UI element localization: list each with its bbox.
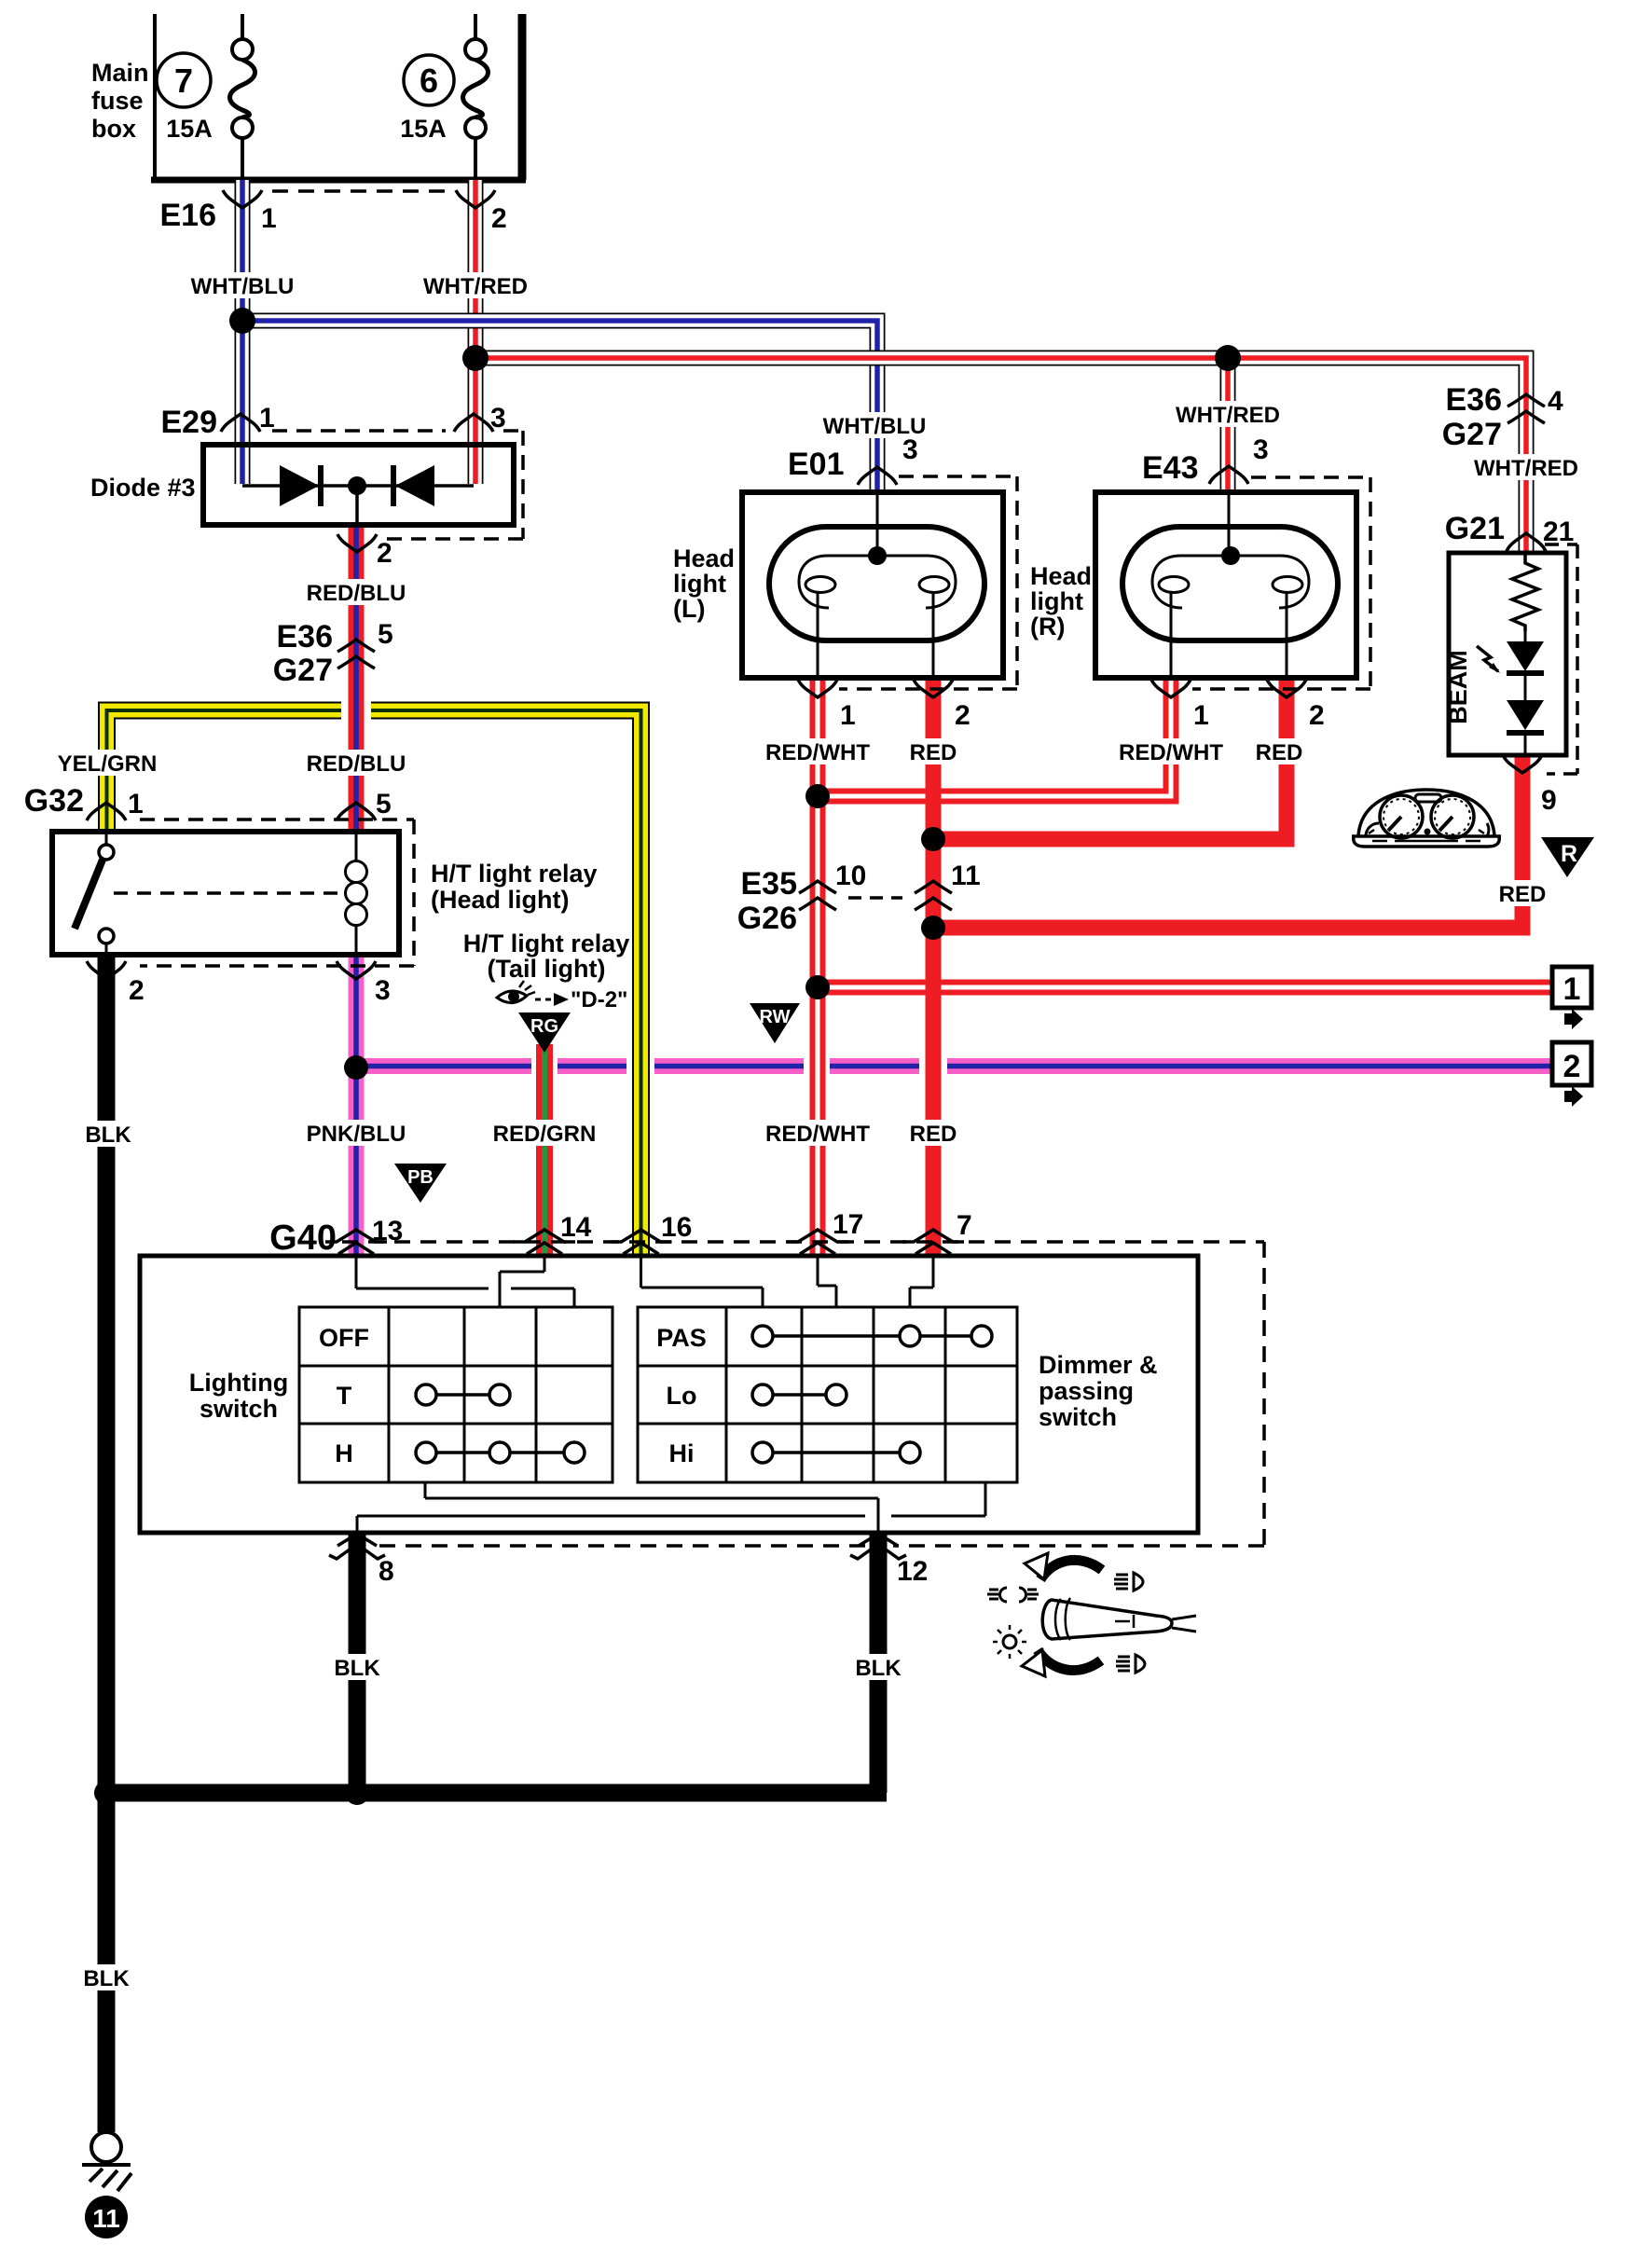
stalk illustration: headlight symbol upper: [1114, 1573, 1143, 1591]
relay G32 pin1 arrow: [87, 803, 126, 820]
svg-text:G27: G27: [1442, 417, 1502, 452]
wire label RED/WHT (E01 pin1): [765, 738, 870, 765]
wire WHT/BLU horizontal bus to headlight L: [235, 321, 877, 492]
svg-text:G21: G21: [1445, 511, 1505, 546]
svg-text:RED: RED: [910, 1122, 957, 1147]
svg-text:10: 10: [835, 861, 866, 891]
wire RED/WHT branch to connector box 1: [810, 980, 1552, 996]
diode D2 (right, pointing left): [395, 465, 434, 506]
wire label BLK (G40 pin12): [852, 1654, 904, 1681]
svg-text:WHT/RED: WHT/RED: [1176, 403, 1280, 428]
LED lightning arrow: [1477, 646, 1498, 671]
diode center tap node: [348, 476, 366, 495]
svg-text:T: T: [337, 1382, 352, 1410]
svg-text:WHT/RED: WHT/RED: [1474, 456, 1578, 481]
svg-text:13: 13: [372, 1216, 403, 1246]
junction dot RED at y995: [921, 916, 945, 940]
svg-text:G32: G32: [24, 783, 84, 819]
svg-text:BLK: BLK: [85, 1122, 131, 1148]
svg-text:BLK: BLK: [855, 1656, 902, 1681]
connector E16 pin2 arrow: [456, 190, 495, 208]
wire RED crossing patches (RED passes over branch lines): [926, 786, 942, 998]
svg-text:box: box: [91, 115, 136, 143]
connector E01 pin1 arrow: [798, 680, 837, 697]
wire label RED (E01 pin2): [907, 738, 959, 765]
stalk illustration: stalk body: [1042, 1600, 1172, 1639]
connector G21 pin21 arrow: [1507, 533, 1546, 551]
wire label RED/BLU (lower): [307, 750, 406, 777]
wire WHT/RED fuse6 to E29 pin3 (vertical): [468, 180, 484, 484]
junction dot WHT/RED bus: [462, 345, 489, 371]
svg-text:11: 11: [92, 2204, 120, 2233]
svg-text:5: 5: [378, 619, 393, 650]
junction dot WHT/BLU bus: [229, 308, 255, 334]
svg-text:RED: RED: [1499, 882, 1547, 907]
relay switch bottom contact: [99, 929, 114, 943]
wire PNK/BLU G32 pin3 to G40 pin13: [349, 955, 365, 1254]
main fuse box: [151, 14, 526, 180]
ground symbol: [91, 2132, 121, 2162]
G40 pin14 chevrons: [514, 1230, 575, 1254]
svg-text:"D-2": "D-2": [571, 987, 627, 1012]
headlight L dashed connector box: [839, 476, 1017, 689]
svg-text:Head: Head: [1030, 562, 1092, 590]
G40 internal wire pin16 to grid: [641, 1256, 764, 1307]
diode #3 internal rail: [242, 484, 474, 488]
wire label RED (E43 pin2): [1253, 738, 1305, 765]
G40 pin7 chevrons: [902, 1230, 964, 1254]
svg-text:RED/WHT: RED/WHT: [765, 1122, 870, 1147]
relay G32 box: [52, 832, 399, 955]
svg-text:switch: switch: [200, 1395, 278, 1423]
svg-text:E16: E16: [160, 198, 217, 233]
G40 internal wire pin7 to grid: [910, 1256, 933, 1307]
svg-text:G27: G27: [273, 653, 333, 688]
svg-text:G40: G40: [269, 1219, 337, 1258]
fuse 7 (15A): [230, 14, 255, 180]
svg-text:RED: RED: [910, 740, 957, 765]
G40 internal wire pin13 to grid: [356, 1256, 574, 1307]
headlight L bulb outline: [769, 527, 984, 640]
lighting switch grid: [299, 1307, 613, 1482]
relay switch top contact: [99, 845, 114, 860]
svg-text:4: 4: [1548, 386, 1563, 417]
G40 internal wire pin14 to grid: [500, 1256, 544, 1307]
junction dot PNK/BLU: [344, 1055, 368, 1080]
relay switch stubs: [105, 832, 108, 955]
svg-text:light: light: [1030, 587, 1083, 615]
switch assembly G40 box: [140, 1256, 1198, 1533]
stalk illustration: prongs: [1172, 1616, 1196, 1632]
wire label WHT/BLU (E16 pin1): [189, 272, 296, 299]
connector E43 pin2 arrow: [1267, 680, 1306, 697]
svg-text:RED/BLU: RED/BLU: [307, 581, 406, 606]
wire label WHT/RED (E43): [1174, 401, 1282, 428]
headlight L feed wire and node: [876, 492, 879, 556]
connector box 2 wire destination: [1552, 1042, 1591, 1085]
svg-text:21: 21: [1543, 516, 1574, 547]
svg-text:(L): (L): [673, 595, 705, 623]
svg-text:17: 17: [833, 1209, 863, 1240]
dimmer contacts row PAS: [752, 1326, 992, 1346]
svg-text:7: 7: [174, 62, 193, 100]
svg-text:1: 1: [1193, 700, 1209, 731]
fuse 7 number circle: [157, 53, 211, 107]
connector E35/G26 dashed link: [848, 896, 902, 900]
svg-text:8: 8: [379, 1556, 394, 1587]
connector E29 dashed link and diode dashed box: [272, 431, 523, 539]
svg-text:2: 2: [491, 203, 507, 234]
ground number circle 11: [85, 2196, 128, 2238]
svg-text:light: light: [673, 570, 726, 598]
headlight R feed wire and node: [1228, 493, 1231, 556]
relay G32 dashed box: [140, 819, 414, 966]
svg-text:2: 2: [1563, 1049, 1581, 1084]
wire YEL/GRN horizontal from G32 pin1 loop: [107, 710, 342, 832]
wire PNK/BLU horizontal to connector box 2: [348, 1058, 1552, 1074]
connector E29 pin1 arrow: [221, 414, 260, 432]
svg-text:E01: E01: [788, 447, 845, 482]
diode D1 (left, pointing right): [280, 465, 319, 506]
diode center tap wire: [355, 486, 359, 525]
fuse 6 number circle: [404, 55, 454, 105]
svg-text:Lo: Lo: [667, 1382, 697, 1410]
wire label RED/WHT (G40 pin17): [765, 1120, 870, 1147]
relay G32 pin2 arrow: [87, 961, 126, 979]
svg-text:(Head light): (Head light): [431, 886, 570, 914]
svg-text:passing: passing: [1039, 1377, 1134, 1405]
wire RED E43 pin2 drop and branch to junction: [926, 678, 1287, 839]
G40 pin17 chevrons: [787, 1230, 848, 1254]
svg-text:BEAM: BEAM: [1444, 650, 1472, 724]
G40 pin16 chevrons: [611, 1230, 672, 1254]
svg-text:2: 2: [1309, 700, 1325, 731]
svg-text:PAS: PAS: [656, 1324, 707, 1352]
RG destination triangle: [518, 1012, 571, 1053]
svg-text:2: 2: [955, 700, 971, 731]
svg-text:G26: G26: [737, 901, 797, 936]
headlight L box: [742, 492, 1003, 678]
lighting switch contacts row H: [416, 1442, 585, 1463]
diode #3 box: [203, 445, 514, 525]
R destination triangle: [1541, 837, 1594, 877]
switch assembly G40 dashed box: [342, 1242, 1264, 1546]
wire WHT/BLU fuse7 to E29 pin1 (vertical): [235, 180, 251, 484]
svg-text:H/T light relay: H/T light relay: [463, 930, 630, 957]
svg-text:14: 14: [560, 1212, 592, 1243]
svg-text:(Tail light): (Tail light): [488, 955, 606, 983]
wire label RED/WHT (E43 pin1): [1119, 738, 1223, 765]
svg-text:3: 3: [1253, 434, 1269, 465]
wire label RED/BLU (upper): [307, 579, 406, 606]
svg-text:(R): (R): [1030, 613, 1065, 640]
connector E35/G26 pin11 double chevron: [915, 881, 952, 910]
wire WHT/RED drop to E43 pin3: [1220, 358, 1236, 493]
stalk illustration: headlight symbol lower: [1116, 1655, 1145, 1673]
headlight R dashed connector box: [1192, 477, 1370, 689]
svg-text:1: 1: [261, 203, 277, 234]
wire label BLK (G32 pin2): [82, 1121, 134, 1148]
junction dot RED at y900: [921, 827, 945, 851]
svg-text:16: 16: [661, 1212, 692, 1243]
svg-text:7: 7: [957, 1210, 972, 1241]
svg-text:YEL/GRN: YEL/GRN: [58, 751, 158, 777]
connector E01 pin3 arrow: [858, 467, 897, 485]
PB destination triangle: [394, 1164, 447, 1203]
relay G32 pin3 arrow: [337, 961, 376, 979]
svg-text:BLK: BLK: [334, 1656, 380, 1681]
svg-text:Diode #3: Diode #3: [90, 474, 196, 502]
svg-text:Dimmer &: Dimmer &: [1039, 1351, 1158, 1379]
svg-text:E43: E43: [1142, 450, 1199, 486]
connector G21 pin9 arrow: [1503, 755, 1542, 773]
G40 internal wire grid col2 to pin12: [425, 1482, 878, 1533]
dimmer contacts row Hi: [752, 1442, 920, 1463]
eye dashed arrow: [535, 999, 554, 1001]
wire RED/WHT E01 pin1 to G40 pin17: [810, 678, 826, 1254]
svg-text:WHT/RED: WHT/RED: [423, 274, 528, 299]
beam indicator G21 dashed box: [1545, 544, 1577, 774]
svg-text:Lighting: Lighting: [189, 1369, 288, 1397]
svg-text:1: 1: [128, 789, 144, 819]
svg-text:E36: E36: [277, 619, 334, 654]
svg-text:RED/BLU: RED/BLU: [307, 751, 406, 777]
svg-text:WHT/BLU: WHT/BLU: [823, 414, 927, 439]
svg-text:BLK: BLK: [83, 1966, 130, 1991]
svg-text:Head: Head: [673, 544, 735, 572]
headlight R bulb outline: [1122, 527, 1338, 640]
relay mechanical dashed link: [114, 891, 341, 895]
svg-text:12: 12: [897, 1556, 928, 1587]
connector E29 pin3 arrow: [454, 414, 493, 432]
svg-text:PNK/BLU: PNK/BLU: [307, 1122, 406, 1147]
wire label BLK (ground): [80, 1964, 132, 1991]
wire label WHT/BLU (E01): [821, 412, 928, 439]
svg-text:15A: 15A: [400, 115, 447, 143]
wire WHT/RED horizontal bus to right side: [468, 358, 1526, 553]
beam indicator G21 box: [1449, 553, 1566, 755]
wire RED G21 pin9 drop and branch to junction: [926, 755, 1522, 928]
dimmer switch grid: [638, 1307, 1017, 1482]
relay switch blade: [75, 860, 103, 929]
headlight R box: [1095, 492, 1356, 678]
instrument cluster icon: [1352, 790, 1501, 847]
svg-text:1: 1: [1563, 971, 1581, 1007]
svg-text:1: 1: [259, 403, 275, 434]
wire BLK G32 pin2 to ground: [98, 955, 116, 2132]
wire RED/BLU diode#3 pin2 to G32 pin5: [349, 523, 365, 832]
stalk illustration: parking lamp symbol: [987, 1588, 1039, 1602]
relay G32 pin5 arrow: [337, 803, 376, 820]
G40 pin8 connector wings: [329, 1538, 385, 1559]
svg-text:PB: PB: [407, 1167, 434, 1188]
diode output pin2 arrow: [337, 534, 377, 552]
svg-text:2: 2: [377, 538, 392, 569]
wire label WHT/RED (E16 pin2): [421, 272, 530, 299]
lighting switch contacts row T: [416, 1384, 510, 1405]
wire RED/WHT E43 pin1 drop and branch to junction: [810, 678, 1171, 796]
indicator diode 1: [1507, 641, 1544, 671]
svg-text:RG: RG: [530, 1016, 558, 1037]
svg-text:3: 3: [375, 975, 391, 1006]
wire label BLK (G40 pin8): [331, 1654, 383, 1681]
svg-text:H/T light relay: H/T light relay: [431, 860, 598, 888]
junction dot BLK left: [94, 1781, 118, 1805]
wire BLK G40 pin8 down: [349, 1533, 366, 1793]
connector E43 pin3 arrow: [1209, 466, 1248, 484]
svg-text:11: 11: [951, 861, 981, 891]
wire label YEL/GRN: [58, 750, 158, 777]
stalk illustration: upper rotate arrow: [1040, 1560, 1102, 1579]
svg-text:WHT/BLU: WHT/BLU: [191, 274, 295, 299]
svg-text:RED/WHT: RED/WHT: [765, 740, 870, 765]
svg-text:fuse: fuse: [91, 87, 144, 115]
svg-text:RED/GRN: RED/GRN: [493, 1122, 597, 1147]
svg-text:OFF: OFF: [319, 1324, 369, 1352]
svg-text:9: 9: [1541, 785, 1557, 816]
wire YEL/GRN horizontal and vertical to G40 pin16: [371, 710, 641, 1254]
svg-text:H: H: [335, 1439, 353, 1467]
G40 internal wire pin8 to dimmer grid: [357, 1482, 985, 1533]
stalk illustration: lower rotate arrow: [1038, 1650, 1101, 1671]
svg-text:E36: E36: [1446, 382, 1503, 418]
svg-text:RW: RW: [760, 1007, 791, 1027]
svg-text:R: R: [1561, 841, 1577, 867]
G40 pin13 chevrons: [325, 1230, 387, 1254]
connector E35/G26 pin10 double chevron: [799, 881, 836, 910]
connector E43 pin1 arrow: [1151, 680, 1191, 697]
junction dot RED/WHT at y854: [805, 784, 830, 808]
svg-text:1: 1: [840, 700, 856, 731]
G40 internal wire pin17 to grid: [818, 1256, 836, 1307]
svg-text:Hi: Hi: [669, 1439, 695, 1467]
connector E16 dashed link: [272, 189, 453, 193]
junction dot RED/WHT at y1059: [805, 975, 830, 999]
eye symbol: [497, 991, 527, 1003]
connector E36/G27 pin4 double chevron: [1507, 394, 1545, 423]
indicator diode 2: [1507, 700, 1544, 730]
svg-text:6: 6: [420, 62, 438, 100]
connector box 1 wire destination: [1552, 967, 1591, 1008]
junction dot BLK pin8: [345, 1781, 369, 1805]
fuse 6 (15A): [463, 14, 489, 180]
G40 pin12 connector wings: [850, 1538, 906, 1559]
svg-text:15A: 15A: [166, 115, 213, 143]
svg-text:5: 5: [376, 789, 392, 819]
wire label WHT/RED (G21): [1472, 454, 1580, 481]
svg-text:E29: E29: [161, 405, 218, 440]
connector E01 pin2 arrow: [914, 680, 953, 697]
relay coil: [346, 832, 367, 955]
resistor inside G21: [1512, 553, 1538, 631]
wire label PNK/BLU: [307, 1120, 406, 1147]
svg-text:switch: switch: [1039, 1403, 1117, 1431]
svg-text:RED: RED: [1256, 740, 1303, 765]
RW destination triangle: [750, 1003, 800, 1043]
wire BLK bottom horizontal join: [98, 1784, 887, 1802]
wire label RED (G21 pin9): [1496, 880, 1549, 907]
wire label RED (G40 pin7): [907, 1120, 959, 1147]
dimmer contacts row Lo: [752, 1384, 847, 1405]
wire label RED/GRN: [493, 1120, 597, 1147]
wire RED E01 pin2 to G40 pin7: [926, 678, 942, 1254]
diode link wires: [1524, 631, 1527, 755]
svg-text:Main: Main: [91, 59, 149, 87]
headlight R filaments: [1152, 556, 1309, 678]
connector E36/G27 pin5 double chevron: [337, 640, 375, 668]
wire BLK G40 pin12 down: [870, 1533, 888, 1793]
svg-text:2: 2: [129, 975, 145, 1006]
connector E16 pin1 arrow: [223, 190, 262, 208]
wire RED/GRN from RG triangle to G40 pin14: [536, 1044, 553, 1254]
svg-text:E35: E35: [741, 866, 798, 902]
svg-text:3: 3: [490, 403, 506, 434]
headlight L filaments: [799, 556, 956, 678]
stalk illustration: sun symbol: [1003, 1635, 1016, 1648]
svg-text:RED/WHT: RED/WHT: [1119, 740, 1223, 765]
junction dot WHT/RED at E43: [1215, 345, 1241, 371]
